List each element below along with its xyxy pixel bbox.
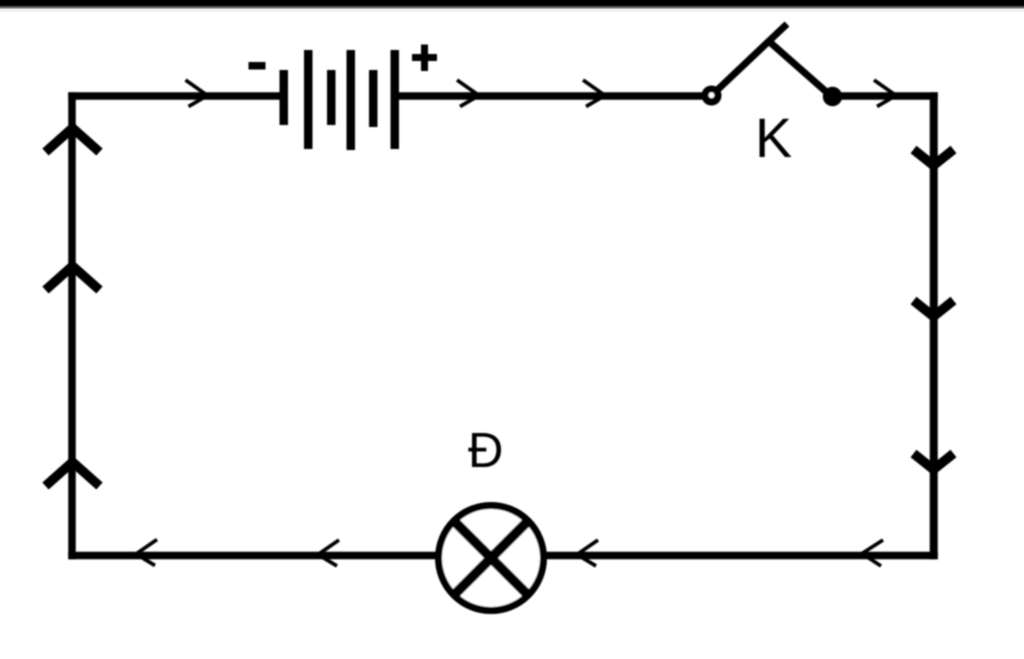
svg-text:Đ: Đ	[468, 424, 503, 478]
svg-text:K: K	[755, 107, 792, 169]
